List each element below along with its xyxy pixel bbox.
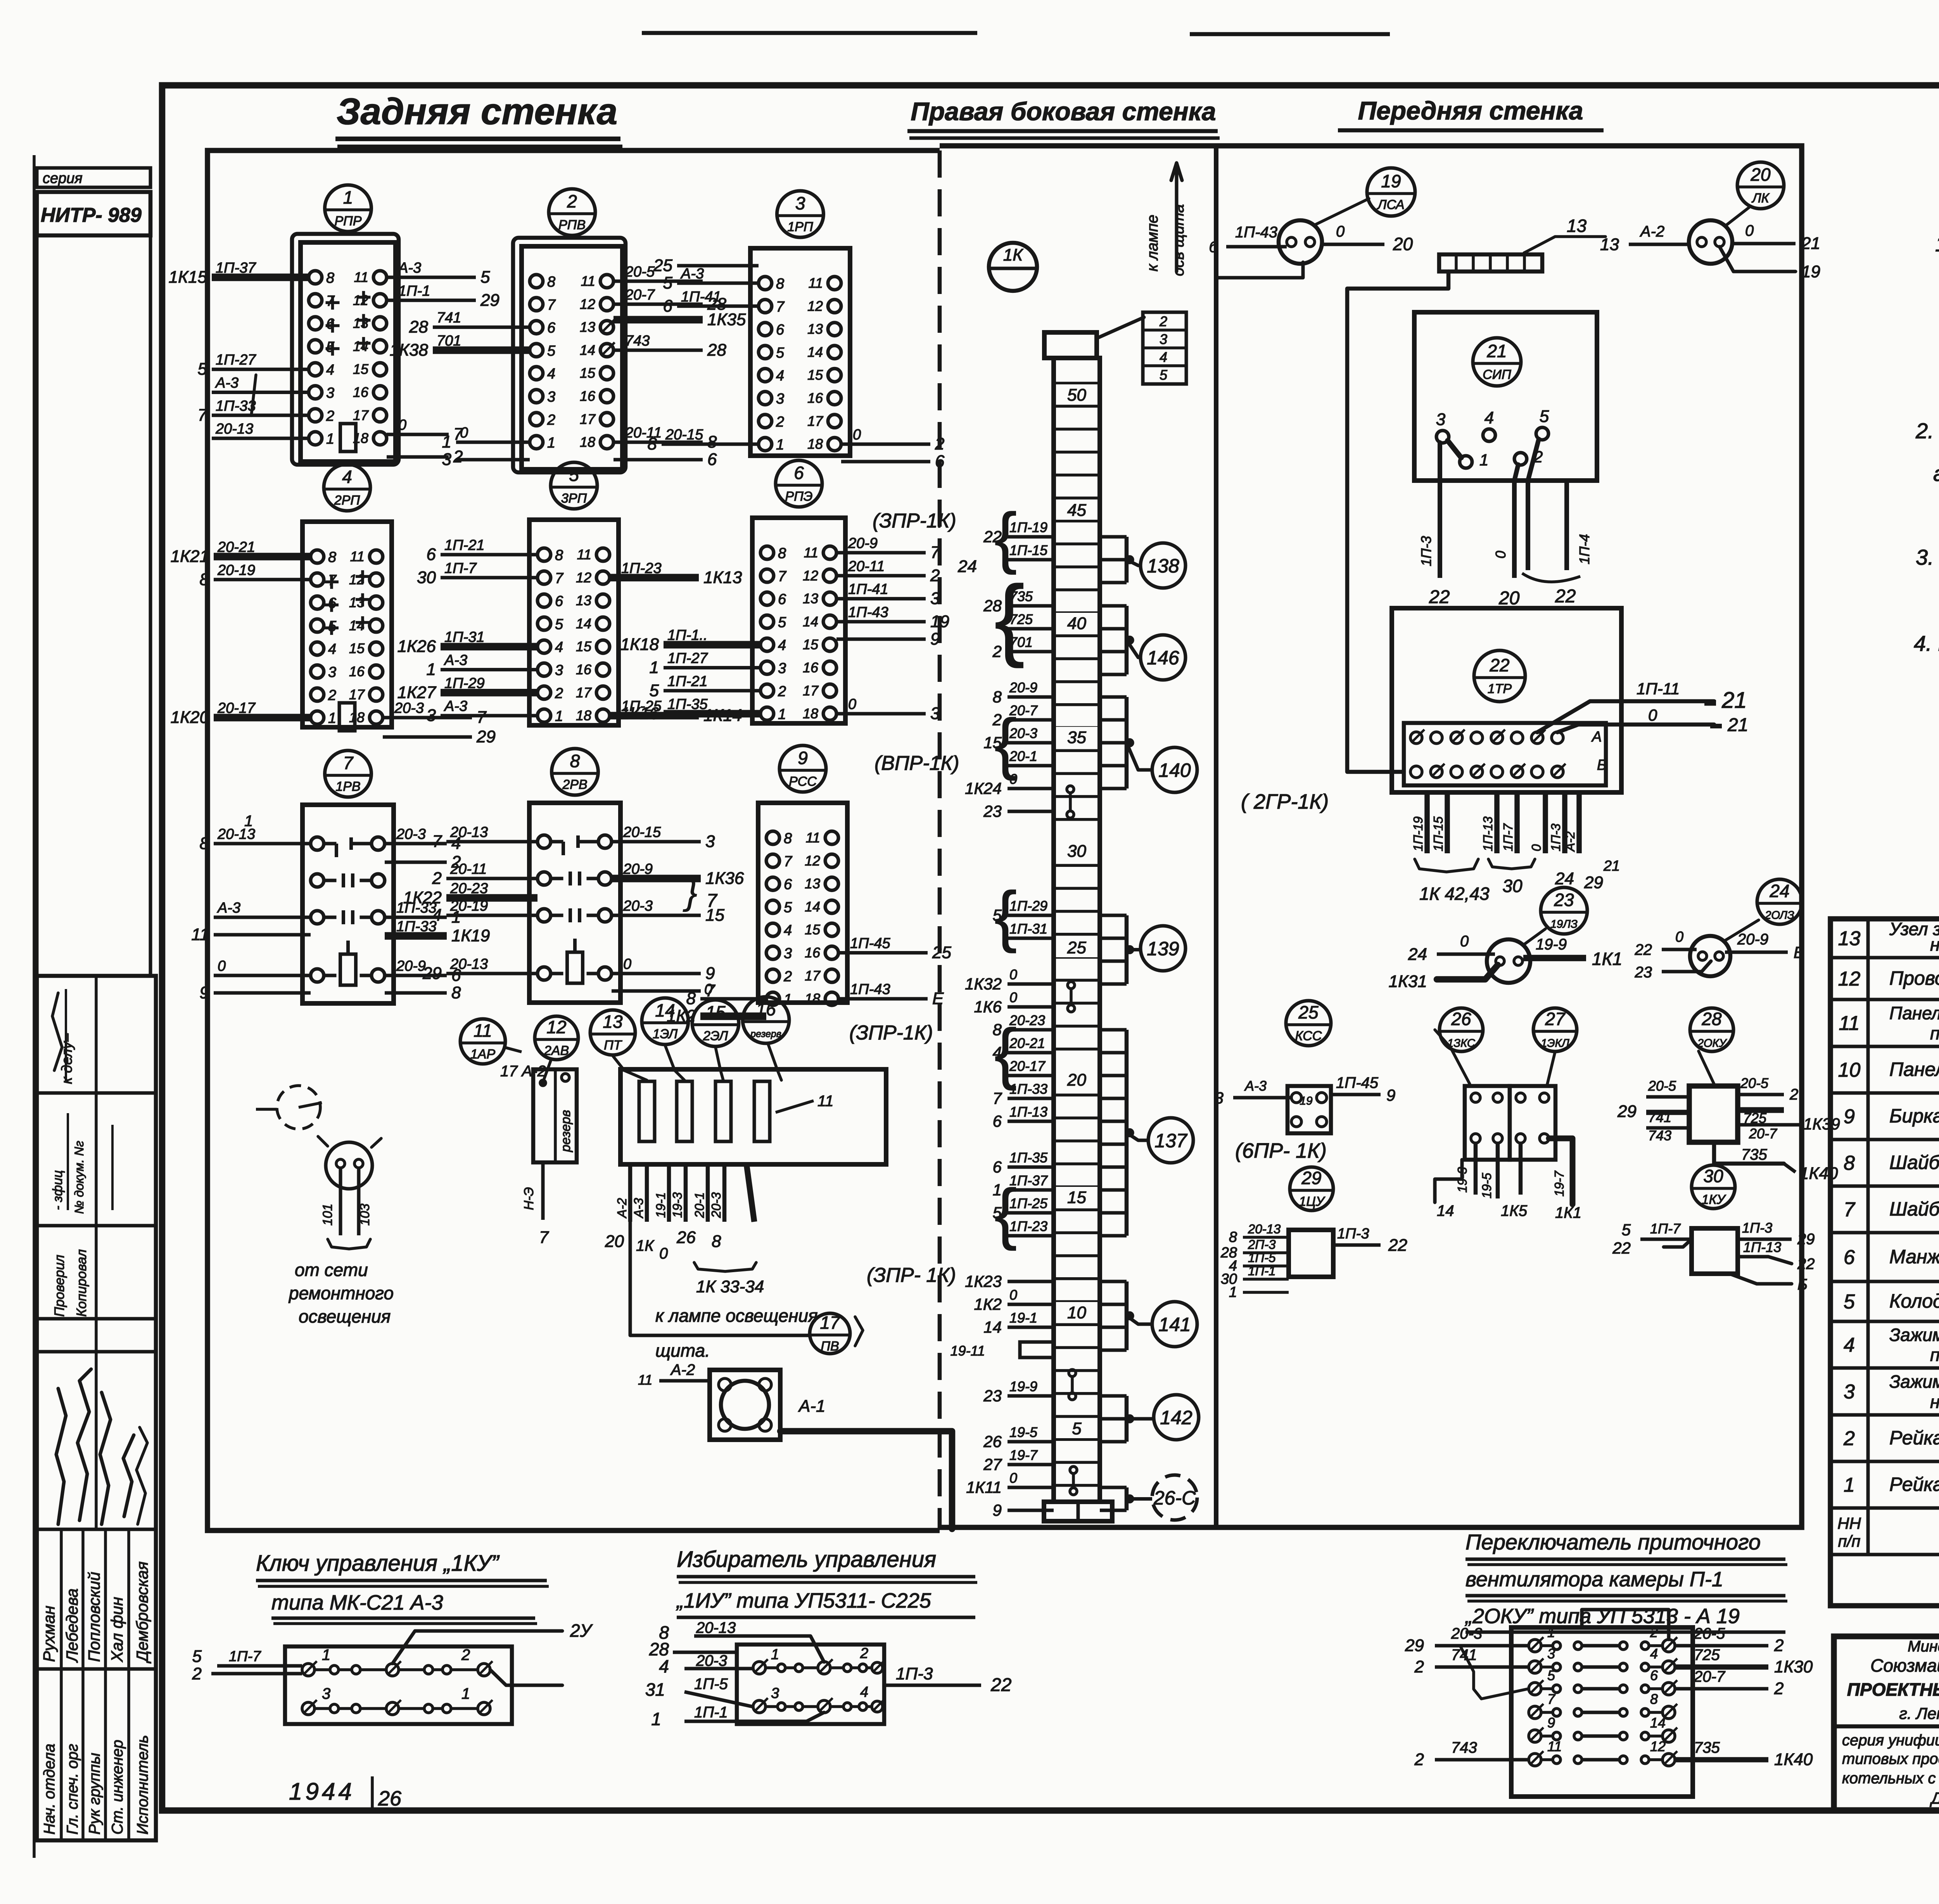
svg-text:освещения: освещения	[299, 1306, 391, 1326]
svg-text:А-2: А-2	[615, 1198, 629, 1219]
svg-text:16: 16	[353, 384, 369, 400]
connector circle 146	[1100, 606, 1186, 680]
relay block 2 РПВ	[513, 189, 626, 472]
svg-text:20: 20	[1067, 1070, 1086, 1089]
svg-text:Провод монтажный гибкий: Провод монтажный гибкий	[1889, 967, 1939, 989]
svg-text:нормальный: нормальный	[1930, 1392, 1939, 1412]
svg-text:19-1: 19-1	[1009, 1310, 1037, 1326]
svg-text:1К31: 1К31	[1389, 972, 1427, 991]
svg-text:Попловский: Попловский	[85, 1572, 103, 1662]
svg-text:12: 12	[546, 1017, 566, 1037]
svg-text:1П-7: 1П-7	[1501, 823, 1515, 851]
spec table rows	[1837, 919, 1939, 1593]
svg-text:(ВПР-1К): (ВПР-1К)	[874, 752, 959, 775]
connector circle 26-С	[1100, 1475, 1197, 1520]
svg-text:0: 0	[853, 427, 861, 443]
svg-text:30: 30	[1502, 876, 1523, 896]
text k lampe osvescheniya	[655, 1306, 818, 1361]
leader 15 to fuse 3	[715, 1047, 723, 1080]
svg-text:29: 29	[1584, 873, 1603, 892]
svg-text:7: 7	[778, 568, 787, 585]
block 5 wires	[397, 537, 742, 725]
terminal strip base	[1044, 1502, 1112, 1521]
svg-text:16: 16	[349, 664, 365, 680]
svg-text:25: 25	[932, 943, 951, 962]
device 19 wires	[1209, 223, 1413, 278]
svg-text:21: 21	[1721, 688, 1747, 713]
svg-text:8: 8	[707, 432, 717, 451]
svg-text:1П-1: 1П-1	[398, 283, 430, 299]
svg-text:А-2: А-2	[1563, 832, 1577, 852]
svg-text:от сети: от сети	[295, 1260, 368, 1280]
svg-text:4: 4	[547, 366, 555, 382]
svg-text:20-9: 20-9	[623, 861, 653, 877]
svg-text:14: 14	[983, 1318, 1002, 1336]
svg-text:17: 17	[576, 685, 592, 700]
svg-text:26: 26	[983, 1432, 1002, 1451]
svg-text:11: 11	[638, 1372, 652, 1388]
relay block 5 3РП	[529, 462, 619, 725]
svg-text:15: 15	[705, 1002, 726, 1022]
label (ЗПР-1К) near block 6	[873, 510, 956, 532]
2ОКУ switch wires	[1405, 1610, 1813, 1769]
svg-text:20-9: 20-9	[396, 958, 426, 974]
svg-text:Переключатель приточного: Переключатель приточного	[1465, 1530, 1761, 1554]
svg-text:(6ПР- 1К): (6ПР- 1К)	[1235, 1139, 1327, 1162]
svg-text:9: 9	[798, 748, 808, 768]
svg-text:6: 6	[776, 322, 785, 338]
svg-text:2: 2	[328, 687, 336, 704]
svg-text:1П-33: 1П-33	[396, 918, 437, 935]
svg-text:0: 0	[1336, 223, 1345, 240]
svg-text:5: 5	[555, 616, 563, 633]
svg-text:8: 8	[993, 688, 1002, 706]
svg-text:РПВ: РПВ	[558, 218, 586, 232]
sig rotated proveril	[52, 1249, 89, 1317]
svg-text:1П-21: 1П-21	[444, 537, 485, 553]
svg-text:20-9: 20-9	[848, 535, 878, 552]
arrow to lamp	[1144, 163, 1187, 276]
svg-text:23: 23	[983, 802, 1002, 820]
svg-text:20: 20	[1750, 164, 1771, 185]
svg-text:17: 17	[805, 968, 821, 984]
terminal strip body	[1054, 358, 1100, 1502]
svg-text:ЛК: ЛК	[1751, 191, 1770, 206]
svg-text:предохранителей.: предохранителей.	[1930, 1023, 1939, 1043]
svg-text:0: 0	[1745, 222, 1754, 239]
label (ВПР-1К) near block 9	[874, 752, 959, 775]
svg-text:27: 27	[1545, 1009, 1566, 1029]
svg-text:3: 3	[1160, 331, 1167, 347]
connector circle 141	[1100, 1281, 1197, 1350]
svg-text:1П-3: 1П-3	[896, 1664, 933, 1683]
svg-text:1К21: 1К21	[171, 547, 209, 566]
notes text	[1914, 232, 1939, 720]
svg-text:14: 14	[353, 338, 368, 354]
svg-text:14: 14	[655, 1000, 675, 1020]
svg-text:141: 141	[1158, 1314, 1191, 1335]
svg-text:22: 22	[1555, 586, 1576, 607]
label (ЗПР-1К) lower	[867, 1264, 956, 1287]
svg-text:13: 13	[580, 319, 595, 335]
svg-text:7: 7	[539, 1228, 549, 1247]
svg-text:15: 15	[805, 922, 821, 937]
svg-text:22: 22	[1388, 1236, 1407, 1255]
svg-text:15: 15	[803, 636, 819, 652]
svg-text:1П-41: 1П-41	[681, 289, 721, 305]
svg-text:типа МК-С21 А-3: типа МК-С21 А-3	[271, 1591, 443, 1614]
svg-text:23: 23	[983, 1387, 1002, 1405]
front wall title underline	[1338, 128, 1604, 133]
svg-text:1К26: 1К26	[397, 637, 436, 656]
svg-text:А-3: А-3	[444, 698, 467, 714]
svg-text:21: 21	[1801, 234, 1820, 253]
svg-text:20-17: 20-17	[217, 700, 256, 716]
svg-text:0: 0	[1675, 929, 1683, 945]
svg-text:16: 16	[807, 390, 823, 406]
svg-text:0: 0	[704, 981, 712, 998]
svg-text:Копировал: Копировал	[74, 1249, 89, 1317]
designator 29 1ЦУ	[1290, 1167, 1333, 1211]
wire to panel lamp	[630, 1222, 809, 1335]
title block text	[1842, 1637, 1939, 1807]
svg-text:16: 16	[580, 388, 596, 404]
svg-text:29: 29	[480, 291, 499, 310]
dashed circle 10	[256, 1086, 322, 1129]
svg-text:13: 13	[1838, 927, 1861, 950]
svg-text:1П-23: 1П-23	[621, 560, 662, 576]
devices 26 27 wires	[1435, 1138, 1581, 1221]
svg-text:15: 15	[349, 640, 365, 656]
block 7 wires	[191, 813, 490, 1002]
svg-text:1П-7: 1П-7	[444, 560, 477, 576]
svg-text:1П-37: 1П-37	[216, 260, 256, 276]
designator 28 2ОКУ	[1690, 1008, 1733, 1084]
svg-text:А: А	[1591, 729, 1602, 745]
svg-text:на щите: на щите	[1930, 934, 1939, 955]
svg-text:20-7: 20-7	[1694, 1668, 1726, 1685]
svg-text:1: 1	[328, 710, 336, 726]
svg-text:13: 13	[1567, 216, 1587, 236]
svg-text:Е: Е	[932, 989, 944, 1008]
svg-text:5: 5	[1540, 407, 1549, 426]
device 21 СИП	[1414, 312, 1597, 481]
fuse panel 11	[620, 1069, 886, 1164]
svg-text:3: 3	[322, 1685, 330, 1702]
svg-text:3РП: 3РП	[561, 491, 587, 506]
sidebar NITR box	[37, 192, 150, 235]
svg-text:4: 4	[326, 362, 334, 378]
block 3 wires	[648, 256, 945, 471]
svg-text:вентилятора камеры П-1: вентилятора камеры П-1	[1465, 1568, 1723, 1591]
svg-text:5: 5	[198, 360, 207, 379]
svg-text:1П-35: 1П-35	[1009, 1150, 1048, 1166]
svg-text:18: 18	[807, 436, 823, 452]
panel divider solid	[1214, 146, 1218, 1527]
svg-text:типовых проектов: типовых проектов	[1842, 1750, 1939, 1767]
svg-text:3: 3	[778, 661, 786, 677]
svg-text:9: 9	[1386, 1086, 1395, 1104]
strip jumper 1К24	[1067, 786, 1074, 818]
designator 14 1ЭЛ	[642, 998, 688, 1045]
svg-text:1РВ: 1РВ	[335, 779, 360, 794]
svg-text:2: 2	[326, 408, 334, 424]
svg-text:18: 18	[576, 707, 591, 723]
svg-text:18: 18	[805, 991, 820, 1006]
svg-text:5: 5	[650, 681, 659, 700]
svg-text:2: 2	[1414, 1657, 1424, 1676]
block 1 wires	[169, 260, 499, 466]
svg-text:19-7: 19-7	[1552, 1170, 1566, 1197]
designator 19 ЛСА	[1315, 168, 1415, 225]
designator 15 2ЭЛ	[692, 1000, 739, 1046]
svg-text:4: 4	[776, 368, 784, 384]
svg-text:21: 21	[1603, 858, 1620, 874]
svg-text:2: 2	[555, 685, 563, 702]
svg-text:1П-15: 1П-15	[1009, 542, 1048, 558]
svg-text:3: 3	[1844, 1381, 1855, 1403]
designator 20 ЛК	[1726, 162, 1784, 225]
svg-text:4: 4	[1650, 1646, 1658, 1662]
svg-text:19-5: 19-5	[1009, 1424, 1038, 1440]
svg-text:19: 19	[1300, 1095, 1313, 1107]
svg-text:146: 146	[1147, 647, 1179, 669]
svg-text:101: 101	[320, 1204, 335, 1226]
svg-text:1К15: 1К15	[169, 268, 207, 287]
svg-text:12: 12	[1650, 1738, 1666, 1754]
connector circle 137	[1100, 1030, 1193, 1236]
devices 26 27 block	[1435, 1030, 1555, 1160]
svg-text:6: 6	[707, 450, 717, 469]
signature table rows	[37, 1093, 156, 1669]
svg-text:1П-1..: 1П-1..	[667, 627, 708, 643]
svg-text:4: 4	[432, 906, 442, 925]
svg-text:5: 5	[778, 614, 786, 631]
svg-text:Рейка зажимов: Рейка зажимов	[1889, 1427, 1939, 1449]
svg-text:2ОЛЗ: 2ОЛЗ	[1764, 909, 1794, 922]
svg-text:2ОКУ: 2ОКУ	[1697, 1037, 1727, 1050]
svg-text:12: 12	[803, 567, 818, 583]
svg-text:2: 2	[1789, 1086, 1798, 1103]
svg-text:1К: 1К	[636, 1237, 655, 1254]
terminal bar 13	[1439, 254, 1542, 272]
svg-text:725: 725	[1694, 1646, 1720, 1664]
svg-text:8: 8	[712, 1232, 721, 1251]
svg-text:3: 3	[776, 391, 784, 407]
svg-text:21: 21	[1486, 341, 1507, 361]
svg-text:1К36: 1К36	[705, 869, 744, 888]
svg-text:1: 1	[1547, 1624, 1555, 1640]
svg-text:20-23: 20-23	[450, 880, 488, 897]
svg-text:8: 8	[648, 434, 657, 453]
svg-text:5: 5	[569, 465, 579, 485]
svg-text:15: 15	[353, 361, 369, 377]
svg-text:8: 8	[1650, 1691, 1658, 1707]
svg-text:11: 11	[817, 1093, 834, 1110]
device 29 box	[1289, 1230, 1333, 1277]
svg-text:0: 0	[218, 958, 226, 974]
svg-text:1П-43: 1П-43	[1235, 224, 1277, 241]
svg-text:5: 5	[1547, 1667, 1555, 1683]
svg-text:20-3: 20-3	[709, 1192, 723, 1218]
svg-text:13: 13	[353, 315, 368, 331]
svg-text:20-11: 20-11	[848, 558, 885, 574]
device 24 2ОЛЗ	[1690, 936, 1730, 976]
svg-text:10: 10	[1067, 1303, 1086, 1322]
terminal strip cap	[1044, 332, 1097, 358]
svg-text:4: 4	[1160, 349, 1167, 365]
svg-text:10: 10	[1838, 1059, 1861, 1081]
svg-text:20-13: 20-13	[215, 421, 253, 437]
svg-text:1: 1	[651, 1709, 661, 1729]
block 6 wires	[620, 535, 977, 723]
svg-text:1П-19: 1П-19	[1411, 816, 1425, 851]
svg-text:8: 8	[200, 834, 209, 853]
svg-text:2: 2	[992, 642, 1002, 661]
svg-text:11: 11	[806, 830, 820, 846]
svg-text:1К23: 1К23	[965, 1272, 1002, 1290]
svg-text:1: 1	[778, 706, 786, 723]
svg-text:8: 8	[451, 983, 461, 1002]
svg-text:Рук группы: Рук группы	[86, 1753, 103, 1835]
svg-text:1П-13: 1П-13	[1481, 816, 1495, 851]
svg-text:29: 29	[1617, 1102, 1637, 1121]
svg-text:1944: 1944	[289, 1778, 355, 1805]
svg-text:6: 6	[427, 545, 436, 564]
svg-text:12: 12	[807, 298, 823, 314]
svg-text:3: 3	[1215, 1089, 1224, 1107]
svg-text:Правая боковая стенка: Правая боковая стенка	[911, 97, 1216, 126]
svg-text:28: 28	[1701, 1009, 1722, 1029]
svg-text:7: 7	[930, 543, 940, 562]
svg-text:Бирка маркировочная: Бирка маркировочная	[1889, 1105, 1939, 1127]
device 28 box	[1689, 1086, 1738, 1142]
svg-text:серия: серия	[43, 170, 83, 187]
svg-text:- зфиц: - зфиц	[50, 1170, 65, 1210]
svg-text:22: 22	[1797, 1255, 1815, 1273]
svg-text:0: 0	[1460, 933, 1469, 950]
svg-text:0: 0	[1009, 989, 1017, 1005]
svg-text:1. В маркировке аппаратуры: 1. В маркировке аппаратуры в числителе	[1935, 232, 1939, 256]
svg-text:1: 1	[1229, 1284, 1237, 1300]
svg-text:20-3: 20-3	[696, 1652, 727, 1669]
sig rotated text fin	[50, 1113, 112, 1214]
leader 12 to rezerv	[543, 1061, 551, 1082]
svg-text:1КУ: 1КУ	[1702, 1192, 1726, 1207]
svg-text:19-11: 19-11	[950, 1343, 985, 1359]
svg-text:19-7: 19-7	[1009, 1447, 1038, 1463]
svg-text:20-13: 20-13	[450, 956, 488, 972]
svg-text:Минстрой СССР: Минстрой СССР	[1908, 1638, 1939, 1655]
svg-text:13: 13	[807, 321, 823, 337]
svg-text:2: 2	[783, 968, 792, 985]
block 9 wires	[667, 936, 951, 1026]
key switch wires	[192, 1620, 593, 1685]
svg-text:0: 0	[1009, 1287, 1017, 1303]
svg-text:9: 9	[1547, 1715, 1555, 1731]
text from remont network	[288, 1260, 394, 1326]
svg-text:28: 28	[409, 318, 428, 337]
device 22 lower wires	[1411, 792, 1620, 904]
svg-text:12: 12	[576, 569, 591, 585]
svg-text:А-3: А-3	[397, 260, 421, 276]
svg-text:1: 1	[1479, 451, 1488, 469]
svg-text:2РП: 2РП	[334, 493, 360, 508]
svg-text:4: 4	[784, 922, 792, 939]
svg-text:8: 8	[776, 276, 784, 292]
svg-text:3: 3	[427, 706, 436, 725]
svg-text:22: 22	[1635, 941, 1652, 958]
svg-text:А-3: А-3	[680, 266, 704, 282]
svg-text:1К32: 1К32	[965, 975, 1002, 993]
svg-text:Рейка зажимов: Рейка зажимов	[1889, 1473, 1939, 1495]
svg-text:14: 14	[1650, 1715, 1666, 1731]
svg-text:30: 30	[1703, 1166, 1723, 1186]
svg-text:1: 1	[244, 813, 253, 830]
svg-text:2ЭЛ: 2ЭЛ	[703, 1029, 728, 1043]
svg-text:14: 14	[805, 899, 820, 915]
relay block 9 РСС	[758, 745, 847, 1008]
svg-text:17: 17	[349, 687, 365, 702]
svg-text:2: 2	[1159, 313, 1167, 329]
svg-text:г. Ленинград 1970: г. Ленинград 1970	[1899, 1704, 1939, 1722]
device 22 1ТР	[1392, 608, 1621, 792]
strip 19-11 tab	[950, 1342, 1054, 1359]
svg-text:2: 2	[935, 434, 944, 453]
back wall title	[337, 91, 617, 132]
designator 12 2АВ	[535, 1016, 578, 1060]
svg-text:1П-3: 1П-3	[1418, 536, 1434, 566]
left paper edge line	[33, 155, 36, 1858]
svg-text:50: 50	[1067, 386, 1086, 405]
svg-text:1П-13: 1П-13	[1009, 1104, 1047, 1120]
svg-text:котельных с котлами: котельных с котлами	[1842, 1770, 1939, 1787]
svg-text:Колодка маркировочная: Колодка маркировочная	[1889, 1290, 1939, 1312]
svg-text:1: 1	[343, 187, 353, 208]
svg-text:1: 1	[547, 435, 555, 451]
svg-text:Рухман: Рухман	[40, 1606, 58, 1662]
svg-text:{: {	[994, 1176, 1017, 1251]
svg-text:8: 8	[778, 545, 786, 562]
panel divider dashed	[938, 150, 942, 1530]
svg-text:Лебедева: Лебедева	[63, 1588, 81, 1663]
svg-text:15: 15	[705, 906, 724, 925]
svg-text:к лампе освещения: к лампе освещения	[655, 1306, 818, 1326]
svg-text:резерв: резерв	[558, 1110, 573, 1152]
svg-text:2: 2	[461, 1646, 470, 1664]
svg-text:( 2ГР-1К): ( 2ГР-1К)	[1241, 790, 1329, 813]
svg-text:3: 3	[326, 385, 334, 401]
svg-text:15: 15	[1067, 1188, 1086, 1207]
svg-text:7: 7	[784, 853, 793, 870]
svg-text:11: 11	[809, 275, 823, 291]
svg-text:4: 4	[328, 641, 336, 657]
svg-text:17: 17	[807, 413, 824, 429]
svg-text:1К39: 1К39	[1803, 1115, 1840, 1133]
svg-text:19: 19	[1381, 171, 1401, 191]
svg-text:3: 3	[1547, 1646, 1555, 1662]
svg-text:18: 18	[580, 434, 595, 450]
svg-text:20-15: 20-15	[623, 824, 661, 840]
sidebar seriya text	[43, 170, 83, 187]
sig job titles and names	[40, 1562, 152, 1835]
svg-text:30: 30	[417, 568, 436, 587]
svg-text:14: 14	[807, 344, 823, 360]
svg-text:6: 6	[794, 463, 804, 483]
svg-text:19-3: 19-3	[670, 1192, 684, 1218]
svg-text:20-13: 20-13	[696, 1619, 736, 1636]
svg-text:137: 137	[1154, 1130, 1188, 1152]
